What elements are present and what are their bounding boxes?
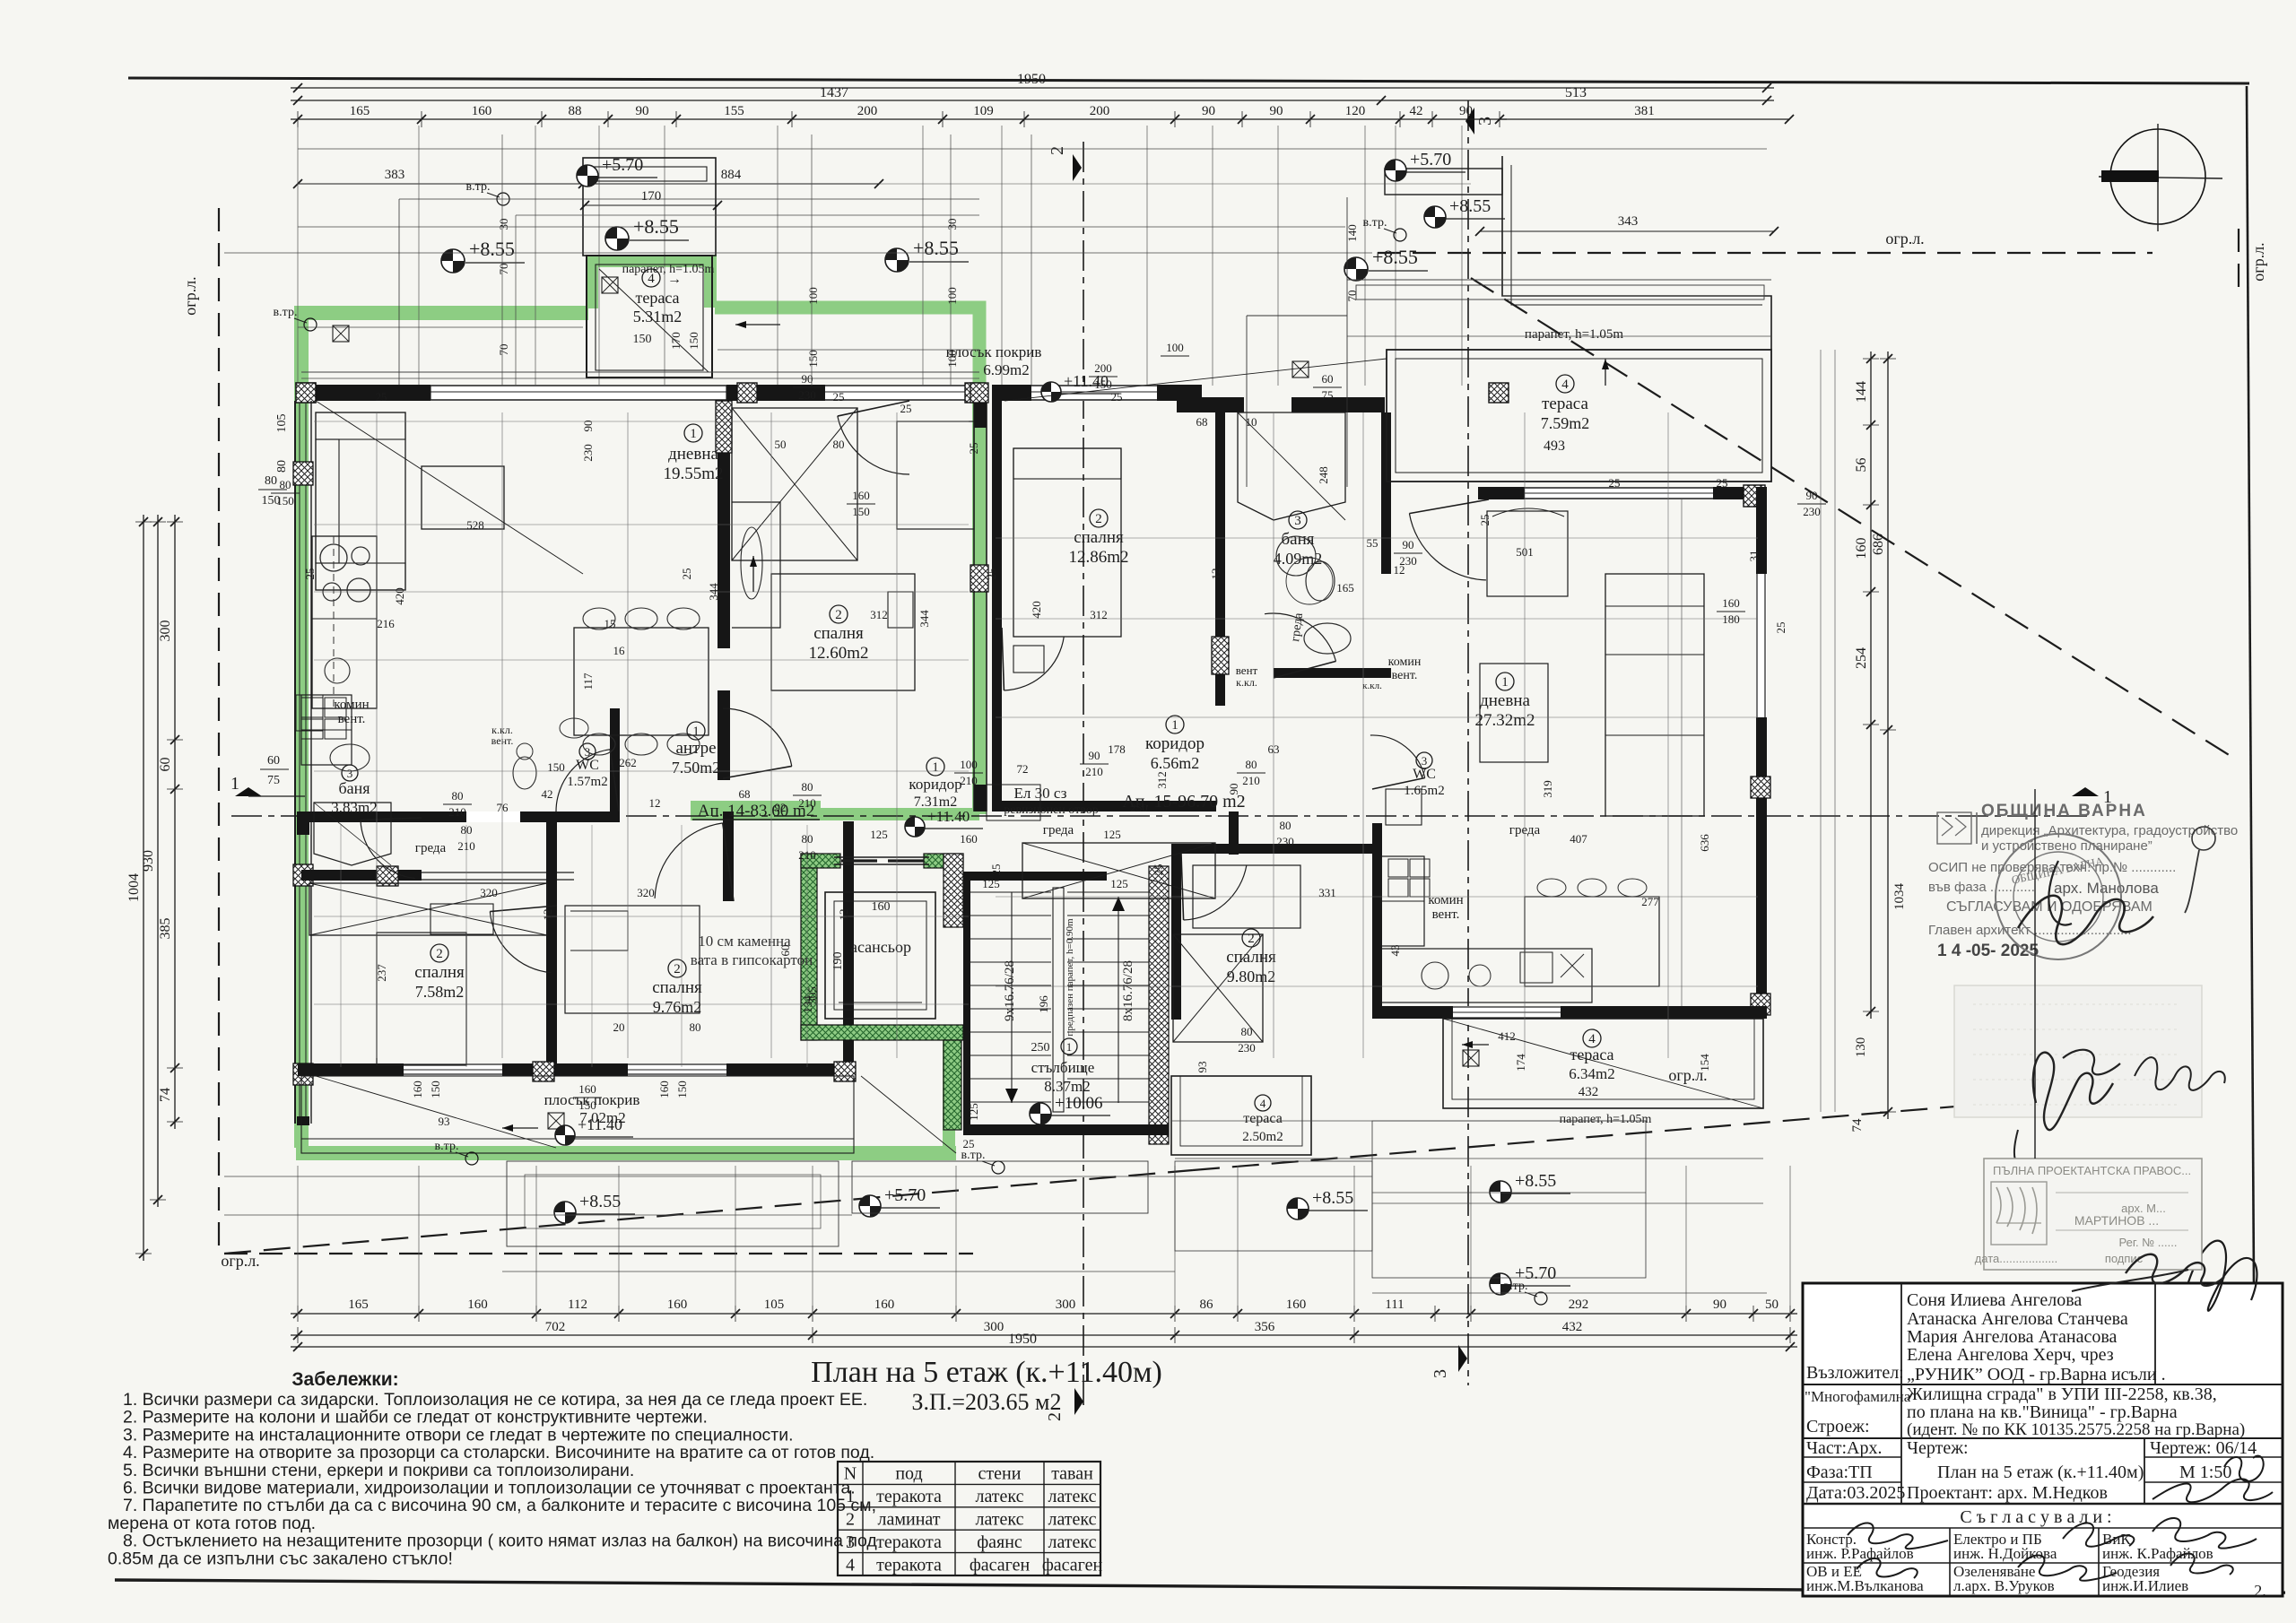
svg-text:3.83m2: 3.83m2 — [331, 799, 377, 816]
svg-text:165: 165 — [348, 1298, 369, 1312]
svg-text:тераса: тераса — [635, 289, 679, 307]
svg-text:"Многофамилна: "Многофамилна — [1805, 1388, 1911, 1405]
svg-text:1950: 1950 — [1017, 72, 1046, 87]
bottom band roof outlines — [507, 1161, 839, 1246]
bath 3.83 bottom wall — [301, 870, 422, 881]
svg-text:1: 1 — [230, 774, 239, 794]
svg-text:дирекция „Архитектура, градоус: дирекция „Архитектура, градоустройство — [1981, 823, 2238, 838]
svg-text:90: 90 — [1089, 749, 1100, 762]
svg-text:160: 160 — [872, 900, 891, 914]
svg-text:N: N — [844, 1464, 857, 1484]
svg-text:50: 50 — [775, 438, 787, 451]
svg-text:2: 2 — [436, 947, 443, 961]
kitchen right cabinets column — [1381, 856, 1424, 946]
green highlight elevator block vertical — [943, 1040, 955, 1153]
svg-text:1: 1 — [846, 1487, 855, 1506]
svg-text:25: 25 — [1609, 476, 1621, 490]
svg-text:210: 210 — [1242, 774, 1260, 787]
terrace 5.31 upper roof outline — [583, 158, 716, 256]
svg-text:4: 4 — [1561, 378, 1569, 392]
svg-text:+5.70: +5.70 — [884, 1185, 926, 1205]
door arc right apt hall — [1409, 514, 1486, 580]
svg-text:латекс: латекс — [1048, 1487, 1096, 1506]
svg-text:93: 93 — [1196, 1062, 1209, 1073]
interior wall vertical between livingroom and bedroom12.60 — [717, 401, 730, 648]
svg-text:6.56m2: 6.56m2 — [1151, 754, 1200, 772]
interior construction guide lines vertical — [376, 412, 378, 1058]
svg-text:216: 216 — [377, 617, 395, 630]
svg-text:25: 25 — [1111, 390, 1123, 404]
svg-text:493: 493 — [1544, 438, 1565, 454]
svg-text:90: 90 — [1227, 784, 1240, 795]
top dimension chain 1437-513 — [291, 100, 1774, 101]
svg-text:спалня: спалня — [1074, 528, 1124, 547]
svg-text:60: 60 — [1322, 372, 1334, 386]
svg-text:МАРТИНОВ ...: МАРТИНОВ ... — [2074, 1213, 2159, 1228]
svg-text:344: 344 — [707, 583, 720, 601]
svg-text:31: 31 — [1747, 551, 1761, 562]
elevator shaft top wall segments — [801, 854, 840, 868]
svg-text:125: 125 — [870, 828, 888, 841]
svg-text:З.П.=203.65 м2: З.П.=203.65 м2 — [912, 1389, 1062, 1415]
svg-text:3. Размерите на инсталационнит: 3. Размерите на инсталационните отвори с… — [123, 1425, 794, 1445]
title block column line 1 — [1900, 1283, 1902, 1504]
svg-text:греда: греда — [415, 841, 447, 855]
elevator shaft right lower band green — [944, 1040, 961, 1130]
svg-text:250: 250 — [1031, 1041, 1050, 1055]
svg-text:230: 230 — [1276, 835, 1294, 848]
column top-left corner — [296, 383, 316, 403]
svg-text:спалня: спалня — [652, 978, 702, 997]
svg-text:под: под — [895, 1464, 922, 1484]
room tag bath 3.83 — [342, 765, 358, 781]
svg-text:5. Всички външни стени, еркери: 5. Всички външни стени, еркери и покриви… — [123, 1461, 634, 1480]
svg-text:165: 165 — [1336, 581, 1354, 595]
left apartment top exterior wall — [298, 385, 985, 401]
roof slope arrows — [735, 324, 780, 325]
svg-text:70: 70 — [1345, 291, 1359, 302]
svg-text:90: 90 — [581, 421, 595, 432]
svg-text:150: 150 — [633, 333, 652, 346]
column bottom wall right — [834, 1062, 856, 1081]
svg-text:210: 210 — [448, 805, 466, 819]
elevator shaft right column hatch — [944, 854, 963, 927]
bottom wall window 1 — [404, 1063, 502, 1076]
svg-text:1.57m2: 1.57m2 — [567, 775, 607, 789]
svg-text:3: 3 — [1294, 514, 1301, 528]
svg-text:125: 125 — [967, 1103, 980, 1121]
svg-text:150: 150 — [806, 350, 820, 368]
svg-text:25: 25 — [1152, 864, 1165, 876]
svg-text:2: 2 — [835, 608, 842, 622]
svg-text:25: 25 — [900, 402, 912, 415]
svg-text:200: 200 — [857, 104, 878, 118]
elevator shaft left wall green hatch — [801, 854, 817, 1040]
svg-text:344: 344 — [918, 610, 931, 628]
kitchen cabinets bottom small — [301, 695, 352, 765]
door arc bedroom12.60 — [723, 708, 792, 767]
svg-text:комин: комин — [1428, 893, 1463, 907]
svg-text:80: 80 — [461, 823, 473, 837]
svg-text:100: 100 — [960, 758, 978, 771]
armchair livingroom right — [1487, 511, 1568, 596]
roof over entry +5.70 right — [1385, 169, 1502, 195]
top dimension chain detailed — [291, 118, 1507, 120]
svg-text:тераса: тераса — [1542, 395, 1588, 413]
svg-text:125: 125 — [1103, 828, 1121, 841]
svg-text:„РУНИК” ООД - гр.Варна исъли .: „РУНИК” ООД - гр.Варна исъли . — [1907, 1365, 2166, 1384]
svg-text:210: 210 — [798, 848, 816, 862]
svg-text:парапет, h=1.05m: парапет, h=1.05m — [1560, 1113, 1652, 1126]
dashed boundary bottom horizontal — [224, 1253, 973, 1254]
toilet bath 4.09 — [1306, 561, 1335, 601]
right band extra verticals — [1681, 499, 1683, 1006]
desk bedroom 12.60 — [897, 421, 974, 529]
door arc bedroom 9.80 — [1184, 865, 1247, 920]
beam lines bath to wardrobe — [422, 872, 574, 873]
extension guide lines from top chain — [297, 126, 299, 386]
svg-text:343: 343 — [1618, 214, 1639, 229]
svg-text:312: 312 — [870, 608, 888, 621]
level marker +8.55 bottom right — [1490, 1181, 1511, 1202]
svg-text:вата в гипсокартон: вата в гипсокартон — [691, 951, 813, 968]
top dimension chain right 381 — [1500, 118, 1789, 120]
svg-text:Възложител:: Възложител: — [1806, 1363, 1904, 1383]
green highlight bottom band ap.14 — [296, 1146, 956, 1160]
stair down arrow left flight — [1011, 892, 1013, 1103]
svg-text:100: 100 — [1166, 341, 1184, 354]
dashed boundary line top right horizontal ogr.l. — [1378, 252, 2152, 254]
svg-text:312: 312 — [1155, 771, 1169, 789]
svg-text:в.тр.: в.тр. — [466, 180, 491, 194]
room tag bedroom 9.80 — [1242, 929, 1260, 947]
svg-text:1950: 1950 — [1008, 1332, 1037, 1347]
svg-text:420: 420 — [1030, 601, 1043, 619]
bath 4.09 bottom wall — [1274, 668, 1391, 678]
door arc bath 3.83 — [361, 820, 415, 878]
svg-text:1004: 1004 — [126, 873, 142, 902]
svg-text:407: 407 — [1570, 832, 1587, 846]
top dimension chain overall 1950 — [291, 87, 1774, 89]
door arc right apt wc — [1370, 735, 1425, 778]
level marker +5.70 right top — [1385, 160, 1406, 181]
door arc antre main — [655, 823, 723, 898]
svg-text:латекс: латекс — [1048, 1532, 1096, 1552]
svg-text:Ап. 14-83.60 m2: Ап. 14-83.60 m2 — [698, 802, 815, 820]
svg-text:16: 16 — [613, 644, 626, 657]
right dimension chain 144 56 160 254 — [1870, 352, 1872, 1019]
svg-text:90: 90 — [1713, 1298, 1726, 1312]
svg-text:15: 15 — [604, 617, 616, 630]
left wall small solid pieces — [297, 811, 309, 835]
svg-text:фаянс: фаянс — [977, 1532, 1022, 1552]
svg-text:5.31m2: 5.31m2 — [633, 308, 683, 325]
bottom right roof thin lines — [1171, 1120, 1646, 1122]
svg-text:стълбище: стълбище — [1031, 1059, 1095, 1076]
stair treads right flight — [1067, 891, 1149, 893]
svg-text:1: 1 — [932, 760, 939, 775]
svg-text:и устройствено планиране”: и устройствено планиране” — [1981, 838, 2152, 854]
svg-text:112: 112 — [568, 1298, 587, 1312]
svg-text:8. Остъклението на незащитенит: 8. Остъклението на незащитените прозорци… — [123, 1532, 877, 1551]
level marker +8.55 bottom mid — [1287, 1198, 1309, 1219]
tv cabinet on wall — [732, 502, 780, 628]
svg-text:50: 50 — [1765, 1298, 1779, 1312]
svg-text:тераса: тераса — [1243, 1111, 1283, 1126]
sheet bottom border line — [115, 1580, 2285, 1593]
svg-text:1: 1 — [692, 725, 700, 739]
svg-text:+8.55: +8.55 — [1449, 196, 1491, 216]
wall corridor horizontal ap14 — [301, 811, 615, 822]
title block row lines — [1803, 1384, 2283, 1385]
svg-text:ревизионен отвор: ревизионен отвор — [1004, 803, 1099, 817]
bottom dimension chain detailed — [291, 1313, 1797, 1315]
svg-text:178: 178 — [1108, 742, 1126, 756]
svg-text:385: 385 — [158, 918, 173, 940]
svg-text:130: 130 — [1854, 1037, 1868, 1058]
room tag bedroom 12.60 — [830, 605, 848, 623]
right dimension chain 686 1034 — [1887, 352, 1889, 1119]
coffee table right — [1480, 664, 1548, 762]
svg-text:60: 60 — [267, 754, 280, 768]
svg-text:150: 150 — [429, 1081, 442, 1098]
svg-text:9x16.76/28: 9x16.76/28 — [1003, 960, 1017, 1021]
right apartment outer wall east — [1756, 487, 1767, 1016]
svg-text:90: 90 — [1270, 104, 1283, 118]
svg-text:160: 160 — [874, 1298, 895, 1312]
svg-text:75: 75 — [1322, 388, 1334, 402]
svg-text:74: 74 — [1850, 1118, 1865, 1133]
svg-text:80: 80 — [1246, 758, 1257, 771]
column bath top — [1489, 383, 1509, 403]
svg-text:702: 702 — [545, 1320, 566, 1334]
svg-text:6. Всички видове материали, хи: 6. Всички видове материали, хидроизолаци… — [123, 1479, 856, 1498]
interior construction guide lines horizontal — [314, 421, 969, 422]
title block outer frame — [1803, 1283, 2283, 1596]
compass rose north arrow — [2110, 129, 2205, 224]
right apartment top exterior wall — [1478, 487, 1767, 499]
axis 1 marker right — [2072, 787, 2099, 796]
room tag terrace 7.59 — [1556, 375, 1574, 393]
svg-text:80: 80 — [452, 789, 464, 803]
svg-text:парапет, h=1.05m: парапет, h=1.05m — [1525, 327, 1623, 342]
bottom dimension chain 1950 — [291, 1346, 1797, 1348]
svg-text:асансьор: асансьор — [850, 938, 911, 956]
svg-text:ОБЩИНА ВАРНА: ОБЩИНА ВАРНА — [1981, 802, 2147, 820]
svg-text:М 1:50: М 1:50 — [2179, 1462, 2231, 1482]
sofa livingroom right — [1605, 574, 1704, 816]
svg-text:дневна: дневна — [1480, 691, 1530, 710]
svg-text:237: 237 — [375, 964, 388, 982]
svg-text:250: 250 — [1130, 801, 1148, 814]
bath 4.09 right wall — [1381, 412, 1391, 574]
sofa livingroom ap14 — [316, 412, 405, 590]
svg-text:884: 884 — [721, 168, 742, 182]
svg-text:мерена от кота готов под.: мерена от кота готов под. — [108, 1514, 316, 1533]
svg-text:90: 90 — [802, 372, 813, 386]
column right wall — [970, 565, 988, 592]
svg-text:432: 432 — [1578, 1085, 1599, 1099]
bed bedroom 9.80 — [1193, 865, 1300, 928]
svg-text:4: 4 — [1588, 1032, 1596, 1046]
svg-text:356: 356 — [1255, 1320, 1275, 1334]
svg-text:огр.л.: огр.л. — [221, 1252, 259, 1270]
svg-text:160: 160 — [657, 1081, 671, 1098]
green highlight roof edge right of terrace — [715, 308, 979, 401]
svg-text:70: 70 — [497, 264, 510, 275]
level marker +8.55 terrace — [605, 227, 629, 250]
level marker +5.70 bottom center — [859, 1195, 881, 1217]
top wall bath 4.09 segment — [1291, 397, 1385, 412]
column bottom wall mid — [533, 1062, 554, 1081]
svg-text:90: 90 — [1459, 104, 1473, 118]
elevator shaft bottom band green hatch — [801, 1025, 963, 1040]
room tag livingroom ap14 — [684, 424, 702, 442]
stamp signature scribble — [2018, 896, 2153, 944]
svg-text:в.тр.: в.тр. — [274, 306, 298, 319]
svg-text:стени: стени — [978, 1464, 1022, 1484]
wall between kitchen17 and hall right apt — [1372, 823, 1382, 1016]
svg-text:160: 160 — [411, 1081, 424, 1098]
svg-text:90: 90 — [1806, 489, 1818, 502]
svg-text:подпис: подпис — [2105, 1252, 2144, 1265]
svg-text:коридор: коридор — [909, 776, 961, 793]
terrace 6.34 parapet — [1443, 1019, 1763, 1108]
svg-text:латекс: латекс — [975, 1487, 1023, 1506]
svg-text:93: 93 — [439, 1115, 450, 1128]
svg-text:1: 1 — [1501, 675, 1509, 690]
svg-text:319: 319 — [1541, 780, 1554, 798]
terrace 7.59 parapet — [1387, 350, 1771, 482]
elevator cab inner box — [825, 892, 935, 1019]
axis line 2 vertical dash-dot — [1083, 142, 1084, 1406]
svg-text:174: 174 — [1514, 1054, 1527, 1072]
svg-text:2.: 2. — [2254, 1582, 2266, 1600]
svg-text:теракота: теракота — [876, 1555, 942, 1575]
svg-text:930: 930 — [141, 850, 156, 872]
bed bedroom 12.60 — [771, 574, 915, 690]
svg-text:1. Всички размери са зидарски.: 1. Всички размери са зидарски. Топлоизол… — [123, 1390, 867, 1410]
svg-text:100: 100 — [945, 350, 959, 368]
shower bath 4.09 — [1238, 412, 1345, 520]
svg-text:огр.л.: огр.л. — [1885, 230, 1924, 247]
svg-text:80: 80 — [833, 438, 845, 451]
wall antre right vertical — [723, 811, 734, 901]
svg-text:262: 262 — [619, 756, 637, 769]
svg-text:501: 501 — [1516, 545, 1534, 559]
svg-text:80: 80 — [802, 832, 813, 846]
svg-text:+8.55: +8.55 — [1372, 246, 1418, 268]
municipal stamp logo square — [1937, 812, 1971, 844]
stamp box signature — [2126, 1254, 2224, 1286]
svg-text:12: 12 — [837, 909, 850, 921]
svg-text:160: 160 — [852, 489, 870, 502]
svg-text:Част:Арх.: Част:Арх. — [1806, 1438, 1883, 1458]
svg-text:70: 70 — [497, 344, 510, 356]
svg-text:инж.И.Илиев: инж.И.Илиев — [2102, 1577, 2188, 1594]
bedroom 12.86 left wall — [992, 401, 1002, 811]
svg-text:+11.40: +11.40 — [927, 808, 970, 825]
coffee table ap14 — [422, 466, 504, 529]
interior wall lower part with tv niche — [717, 690, 730, 780]
svg-text:коридор: коридор — [1145, 734, 1205, 753]
green highlight label Ap 14 — [691, 801, 821, 820]
svg-text:20: 20 — [613, 1020, 625, 1034]
stamp box logo — [1991, 1182, 2047, 1245]
svg-text:Фаза:ТП: Фаза:ТП — [1806, 1462, 1873, 1482]
svg-text:109: 109 — [973, 104, 994, 118]
left wall column mid1 — [293, 462, 313, 485]
column bedroom 12.86 wall — [1212, 637, 1229, 674]
svg-text:80: 80 — [265, 474, 277, 488]
sink wc ap14 — [560, 718, 588, 738]
kitchen appliance squares right apt — [1388, 859, 1408, 877]
nightstand bedroom 12.86 — [1013, 646, 1044, 673]
svg-text:100: 100 — [945, 287, 959, 305]
kitchen appliance squares — [301, 698, 323, 717]
right apt bottom exterior wall — [1372, 1006, 1767, 1019]
door arc livingroom to terrace corridor — [838, 416, 909, 474]
svg-text:230: 230 — [798, 388, 816, 402]
svg-text:Соня Илиева Ангелова: Соня Илиева Ангелова — [1907, 1290, 2082, 1310]
svg-text:7.59m2: 7.59m2 — [1541, 414, 1590, 432]
stair treads left flight — [970, 891, 1051, 893]
svg-text:86: 86 — [1200, 1298, 1214, 1312]
green highlight right wall of ap.14 upper part — [972, 401, 987, 814]
svg-text:дата..................: дата.................. — [1975, 1252, 2058, 1265]
svg-text:90: 90 — [1403, 538, 1414, 551]
corridor 6.56 walls — [992, 801, 1216, 811]
svg-text:90: 90 — [636, 104, 649, 118]
svg-text:арх. Манолова: арх. Манолова — [2054, 880, 2159, 897]
upper-left roof thin outlines — [399, 198, 979, 200]
svg-text:7. Парапетите по стълби да са: 7. Парапетите по стълби да са с височина… — [123, 1496, 876, 1515]
svg-text:3: 3 — [1475, 117, 1495, 126]
svg-text:80: 80 — [690, 1020, 701, 1034]
svg-text:68: 68 — [1196, 415, 1208, 429]
svg-text:76: 76 — [497, 801, 509, 814]
roof drain crosses — [333, 325, 349, 342]
svg-text:25: 25 — [833, 390, 845, 404]
svg-text:117: 117 — [581, 673, 595, 690]
door arc corridor 6.56 left — [1004, 637, 1064, 690]
east wall window — [1756, 574, 1767, 717]
wall wc vertical — [610, 708, 620, 822]
svg-text:огр.л.: огр.л. — [2249, 242, 2267, 281]
stair central rail — [1053, 888, 1064, 1112]
level marker +8.55 top-left — [441, 249, 465, 273]
axis 2 marker top — [1073, 154, 1082, 181]
svg-text:160: 160 — [1722, 596, 1740, 610]
svg-text:вент: вент — [1236, 664, 1258, 677]
svg-text:к.кл.: к.кл. — [1362, 681, 1382, 691]
svg-text:55: 55 — [1367, 536, 1378, 550]
municipal round stamp — [1996, 834, 2121, 959]
svg-text:2: 2 — [1048, 146, 1067, 155]
dashed boundary right vertical short — [2238, 229, 2239, 296]
svg-text:80: 80 — [802, 780, 813, 794]
svg-text:2.50m2: 2.50m2 — [1242, 1130, 1283, 1144]
kitchen counter ap14 — [312, 536, 377, 708]
svg-text:80: 80 — [275, 460, 289, 473]
faint watermark box — [1954, 985, 2202, 1117]
middle top exterior wall bedroom 12.86 — [992, 385, 1202, 401]
svg-text:160: 160 — [667, 1298, 688, 1312]
svg-text:1: 1 — [1066, 1040, 1073, 1054]
svg-text:125: 125 — [982, 877, 1000, 890]
svg-text:432: 432 — [1562, 1320, 1583, 1334]
svg-text:по плана на кв."Виница" - гр.В: по плана на кв."Виница" - гр.Варна — [1907, 1402, 2178, 1422]
